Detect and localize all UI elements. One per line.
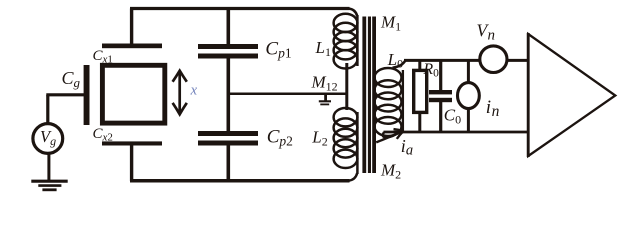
wire R0 top stub: [418, 60, 421, 69]
op-amp triangle: [528, 34, 615, 156]
inductor L2: [334, 108, 358, 181]
svg-text:x: x: [190, 82, 198, 98]
wire Vg bottom lead: [47, 153, 50, 181]
wire middle tap: [228, 93, 346, 96]
wire secondary top right: [507, 59, 529, 62]
wire Vg top lead: [46, 95, 49, 123]
resistor R0: [414, 70, 427, 112]
transformer core: [362, 17, 376, 174]
current arrow ia: [376, 132, 402, 143]
inductor L1: [334, 9, 358, 69]
displacement arrow x: [173, 71, 187, 115]
voltage source Vn: [480, 46, 507, 73]
capacitor Cx2 plate: [102, 141, 162, 145]
current source in: [458, 83, 480, 109]
ground: [31, 180, 67, 183]
wire Vg to Cg: [46, 93, 84, 96]
wire top rail: [130, 7, 350, 10]
wire bottom rail: [130, 179, 350, 183]
wire secondary top left: [404, 59, 481, 62]
wire Cx1 stub: [130, 9, 133, 46]
capacitor Cp2: [198, 131, 258, 136]
wire secondary bottom: [384, 131, 528, 134]
wire Cp1-Cp2 link: [227, 58, 231, 132]
capacitor Cg plate: [84, 65, 90, 125]
wire in top stub: [467, 60, 470, 83]
capacitor Cx1 plate: [102, 44, 162, 49]
wire C0 bottom stub: [439, 102, 442, 132]
proof mass square: [102, 65, 164, 123]
ground middle tap: [324, 95, 327, 101]
wire Cx2 stub: [130, 144, 133, 181]
voltage source Vg: [33, 124, 63, 154]
wire Cp2 bottom stub: [227, 145, 231, 181]
wire in bottom stub: [467, 108, 470, 132]
wire Cp1 top stub: [227, 9, 231, 45]
wire R0 bottom stub: [418, 114, 421, 133]
capacitor Cp1: [198, 44, 258, 49]
capacitor C0: [429, 90, 452, 94]
wire C0 top stub: [439, 60, 442, 90]
inductor L0 secondary: [375, 60, 406, 137]
wire center tap vertical: [345, 63, 348, 110]
